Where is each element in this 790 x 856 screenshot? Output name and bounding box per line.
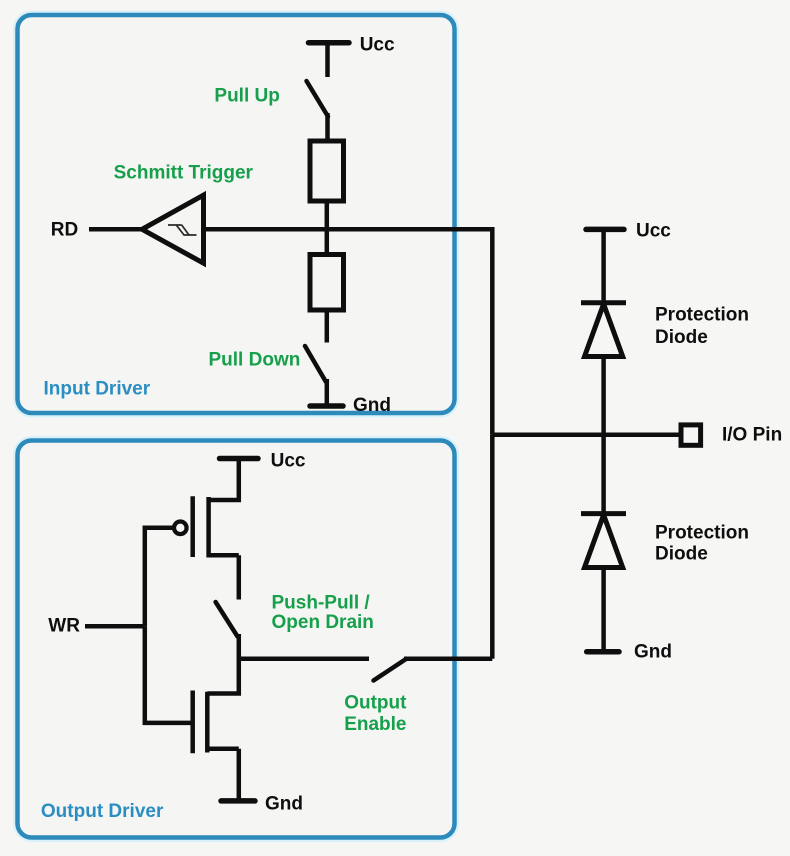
svg-text:Pull Down: Pull Down (209, 350, 301, 371)
svg-text:Diode: Diode (655, 544, 708, 565)
svg-text:Protection: Protection (655, 523, 749, 544)
op-amp Schmitt trigger buffer (142, 195, 204, 263)
resistor pull-up (310, 141, 344, 201)
svg-text:Gnd: Gnd (634, 642, 672, 663)
wire to I/O pin (492, 432, 681, 437)
transistor Q1 PMOS (174, 496, 239, 557)
ground Gnd (output driver) (221, 798, 255, 804)
svg-text:Schmitt Trigger: Schmitt Trigger (114, 163, 254, 184)
svg-text:RD: RD (51, 220, 78, 241)
wire WR rail to NMOS gate (145, 626, 193, 723)
svg-text:Output Driver: Output Driver (41, 801, 164, 822)
svg-text:Gnd: Gnd (265, 794, 303, 815)
wire WR input (85, 624, 145, 629)
wire switch to pull-up resistor (325, 113, 330, 141)
input driver box (18, 15, 455, 413)
diode D2 lower protection diode (581, 514, 626, 568)
ground Gnd (protection) (587, 649, 619, 655)
wire output node line (239, 656, 369, 661)
power Ucc (input driver) (309, 40, 350, 46)
switch Output Enable (374, 659, 407, 681)
pad I/O pin (681, 425, 701, 445)
switch Push-Pull / Open Drain (216, 602, 238, 637)
wire pull-up resistor to node (325, 201, 330, 255)
svg-text:Gnd: Gnd (353, 395, 391, 416)
svg-text:Ucc: Ucc (271, 450, 306, 471)
power Ucc (output driver) (220, 456, 259, 462)
wire PMOS drain to push-pull switch (237, 555, 242, 599)
svg-text:Push-Pull /: Push-Pull / (272, 592, 371, 613)
hysteresis symbol (168, 225, 197, 235)
svg-text:WR: WR (48, 616, 80, 637)
switch Pull Down (305, 346, 326, 382)
wire switch to NMOS drain (207, 634, 239, 694)
wire Schmitt input node to right rail (204, 229, 493, 434)
label Protection Diode (lower) (655, 523, 749, 565)
label Push-Pull / Open Drain (272, 592, 374, 633)
svg-text:Open Drain: Open Drain (272, 612, 374, 633)
transistor Q2 NMOS (193, 691, 239, 754)
label Output Enable (344, 693, 407, 736)
svg-text:Pull Up: Pull Up (214, 86, 279, 107)
wire switch to Gnd (325, 379, 330, 404)
switch Pull Up (307, 81, 329, 117)
svg-text:Input Driver: Input Driver (44, 379, 151, 400)
wire I/O rail vertical (490, 435, 495, 659)
output driver box (18, 441, 455, 838)
wire lower diode to Gnd (601, 568, 606, 651)
wire Ucc to PMOS source (209, 460, 239, 500)
wire Ucc to upper diode (601, 231, 606, 303)
wire output enable to I/O rail (404, 656, 492, 661)
resistor pull-down (310, 255, 344, 311)
ground Gnd (input driver) (310, 403, 343, 409)
power Ucc (protection) (586, 227, 624, 233)
wire PMOS gate bubble to WR rail (145, 528, 174, 627)
svg-text:Ucc: Ucc (360, 35, 395, 56)
svg-text:Diode: Diode (655, 327, 708, 348)
wire Ucc to pull-up switch (325, 44, 330, 77)
svg-text:Enable: Enable (344, 714, 406, 735)
svg-text:I/O Pin: I/O Pin (722, 425, 782, 446)
wire NMOS source to Gnd (237, 749, 242, 799)
wire RD input (89, 227, 142, 232)
diode D1 upper protection diode (581, 303, 626, 357)
svg-text:Ucc: Ucc (636, 221, 671, 242)
label Protection Diode (upper) (655, 305, 749, 349)
svg-text:Protection: Protection (655, 305, 749, 326)
wire pull-down resistor to switch (325, 310, 330, 343)
wire upper diode to junction to lower diode (601, 357, 606, 514)
svg-text:Output: Output (344, 693, 407, 714)
